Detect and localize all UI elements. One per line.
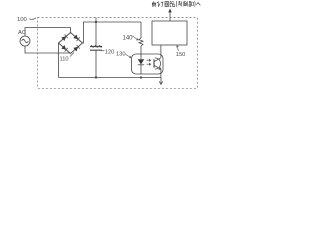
wire: resistor to opto LED anode <box>140 46 142 55</box>
leader for label 110 <box>70 53 74 57</box>
wire: AC top terminal up and right to bridge top vertex <box>25 28 71 37</box>
wire: capacitor upper lead <box>95 22 97 46</box>
glyph 御 <box>183 1 188 6</box>
annotation text: 点灯回路(制御部)へ (drawn glyph approximations) <box>152 1 200 7</box>
svg-text:100: 100 <box>17 17 28 23</box>
wire: stub from top rail up to dashed border <box>95 18 97 23</box>
wire: capacitor lower lead <box>95 50 97 77</box>
glyph ) <box>194 1 196 7</box>
label 130 <box>116 52 126 58</box>
glyph 部 <box>189 1 193 6</box>
ground arrow (return) below rail <box>159 78 163 85</box>
wire: collector up out of package to control box <box>160 45 162 58</box>
label 140 <box>123 36 134 42</box>
bridge diode D3 (top-right edge) <box>73 35 78 40</box>
leader for label 140 <box>132 36 138 40</box>
label 100 <box>17 17 28 23</box>
AC source V1 <box>20 36 30 46</box>
label 110 <box>60 56 69 62</box>
glyph 回 <box>165 2 169 7</box>
arrow from block 150 up to annotation text <box>169 12 171 22</box>
glyph 路 <box>170 1 175 6</box>
glyph 点 <box>152 1 156 6</box>
svg-text:110: 110 <box>60 56 69 62</box>
bridge diode D2 (left-bottom edge) <box>61 45 66 50</box>
wire: emitter down out of package to rail <box>160 69 162 77</box>
bridge diode D1 (left-top edge) <box>61 36 66 41</box>
glyph へ <box>196 3 200 6</box>
label AC <box>18 30 26 36</box>
label 120 <box>105 50 115 56</box>
glyph 灯 <box>157 1 164 6</box>
bridge rectifier 110 (diamond edges) <box>59 33 83 54</box>
resistor R 140 (small zigzag) <box>139 38 143 46</box>
label 150 <box>176 52 186 58</box>
capacitor C 120 <box>90 45 102 50</box>
dashed enclosure 100 (power supply unit) <box>38 18 198 89</box>
leader for label 150 <box>177 46 179 52</box>
wire: LED cathode junction on bottom rail <box>140 76 142 78</box>
opto phototransistor Q <box>154 58 161 70</box>
svg-text:140: 140 <box>123 36 134 42</box>
opto LED (anode top, cathode bottom) <box>138 54 144 74</box>
wire: top rail corner down into resistor 140 <box>140 22 142 38</box>
opto light arrows <box>147 59 151 65</box>
node junction at capacitor top <box>95 21 97 23</box>
node junction at capacitor bottom on rail <box>95 76 97 78</box>
svg-text:150: 150 <box>176 52 186 58</box>
leader for label 100 <box>29 18 36 20</box>
glyph 制 <box>178 1 181 6</box>
leader for label 120 <box>101 49 105 52</box>
glyph ( <box>175 1 177 7</box>
leader for label 130 <box>126 54 132 58</box>
bridge diode D4 (bottom-right edge) <box>73 47 78 52</box>
photocoupler 130 package <box>132 54 164 74</box>
svg-text:120: 120 <box>105 50 115 56</box>
control block 150 <box>152 21 187 45</box>
wire: AC bottom terminal down and right to bridge bottom vertex <box>25 46 71 53</box>
wire: bridge minus (left vertex) down to bottom rail <box>58 43 60 78</box>
wire: bottom rail <box>59 77 162 79</box>
wire: bridge plus (right vertex) up to top rail <box>83 22 142 43</box>
svg-text:130: 130 <box>116 52 126 58</box>
